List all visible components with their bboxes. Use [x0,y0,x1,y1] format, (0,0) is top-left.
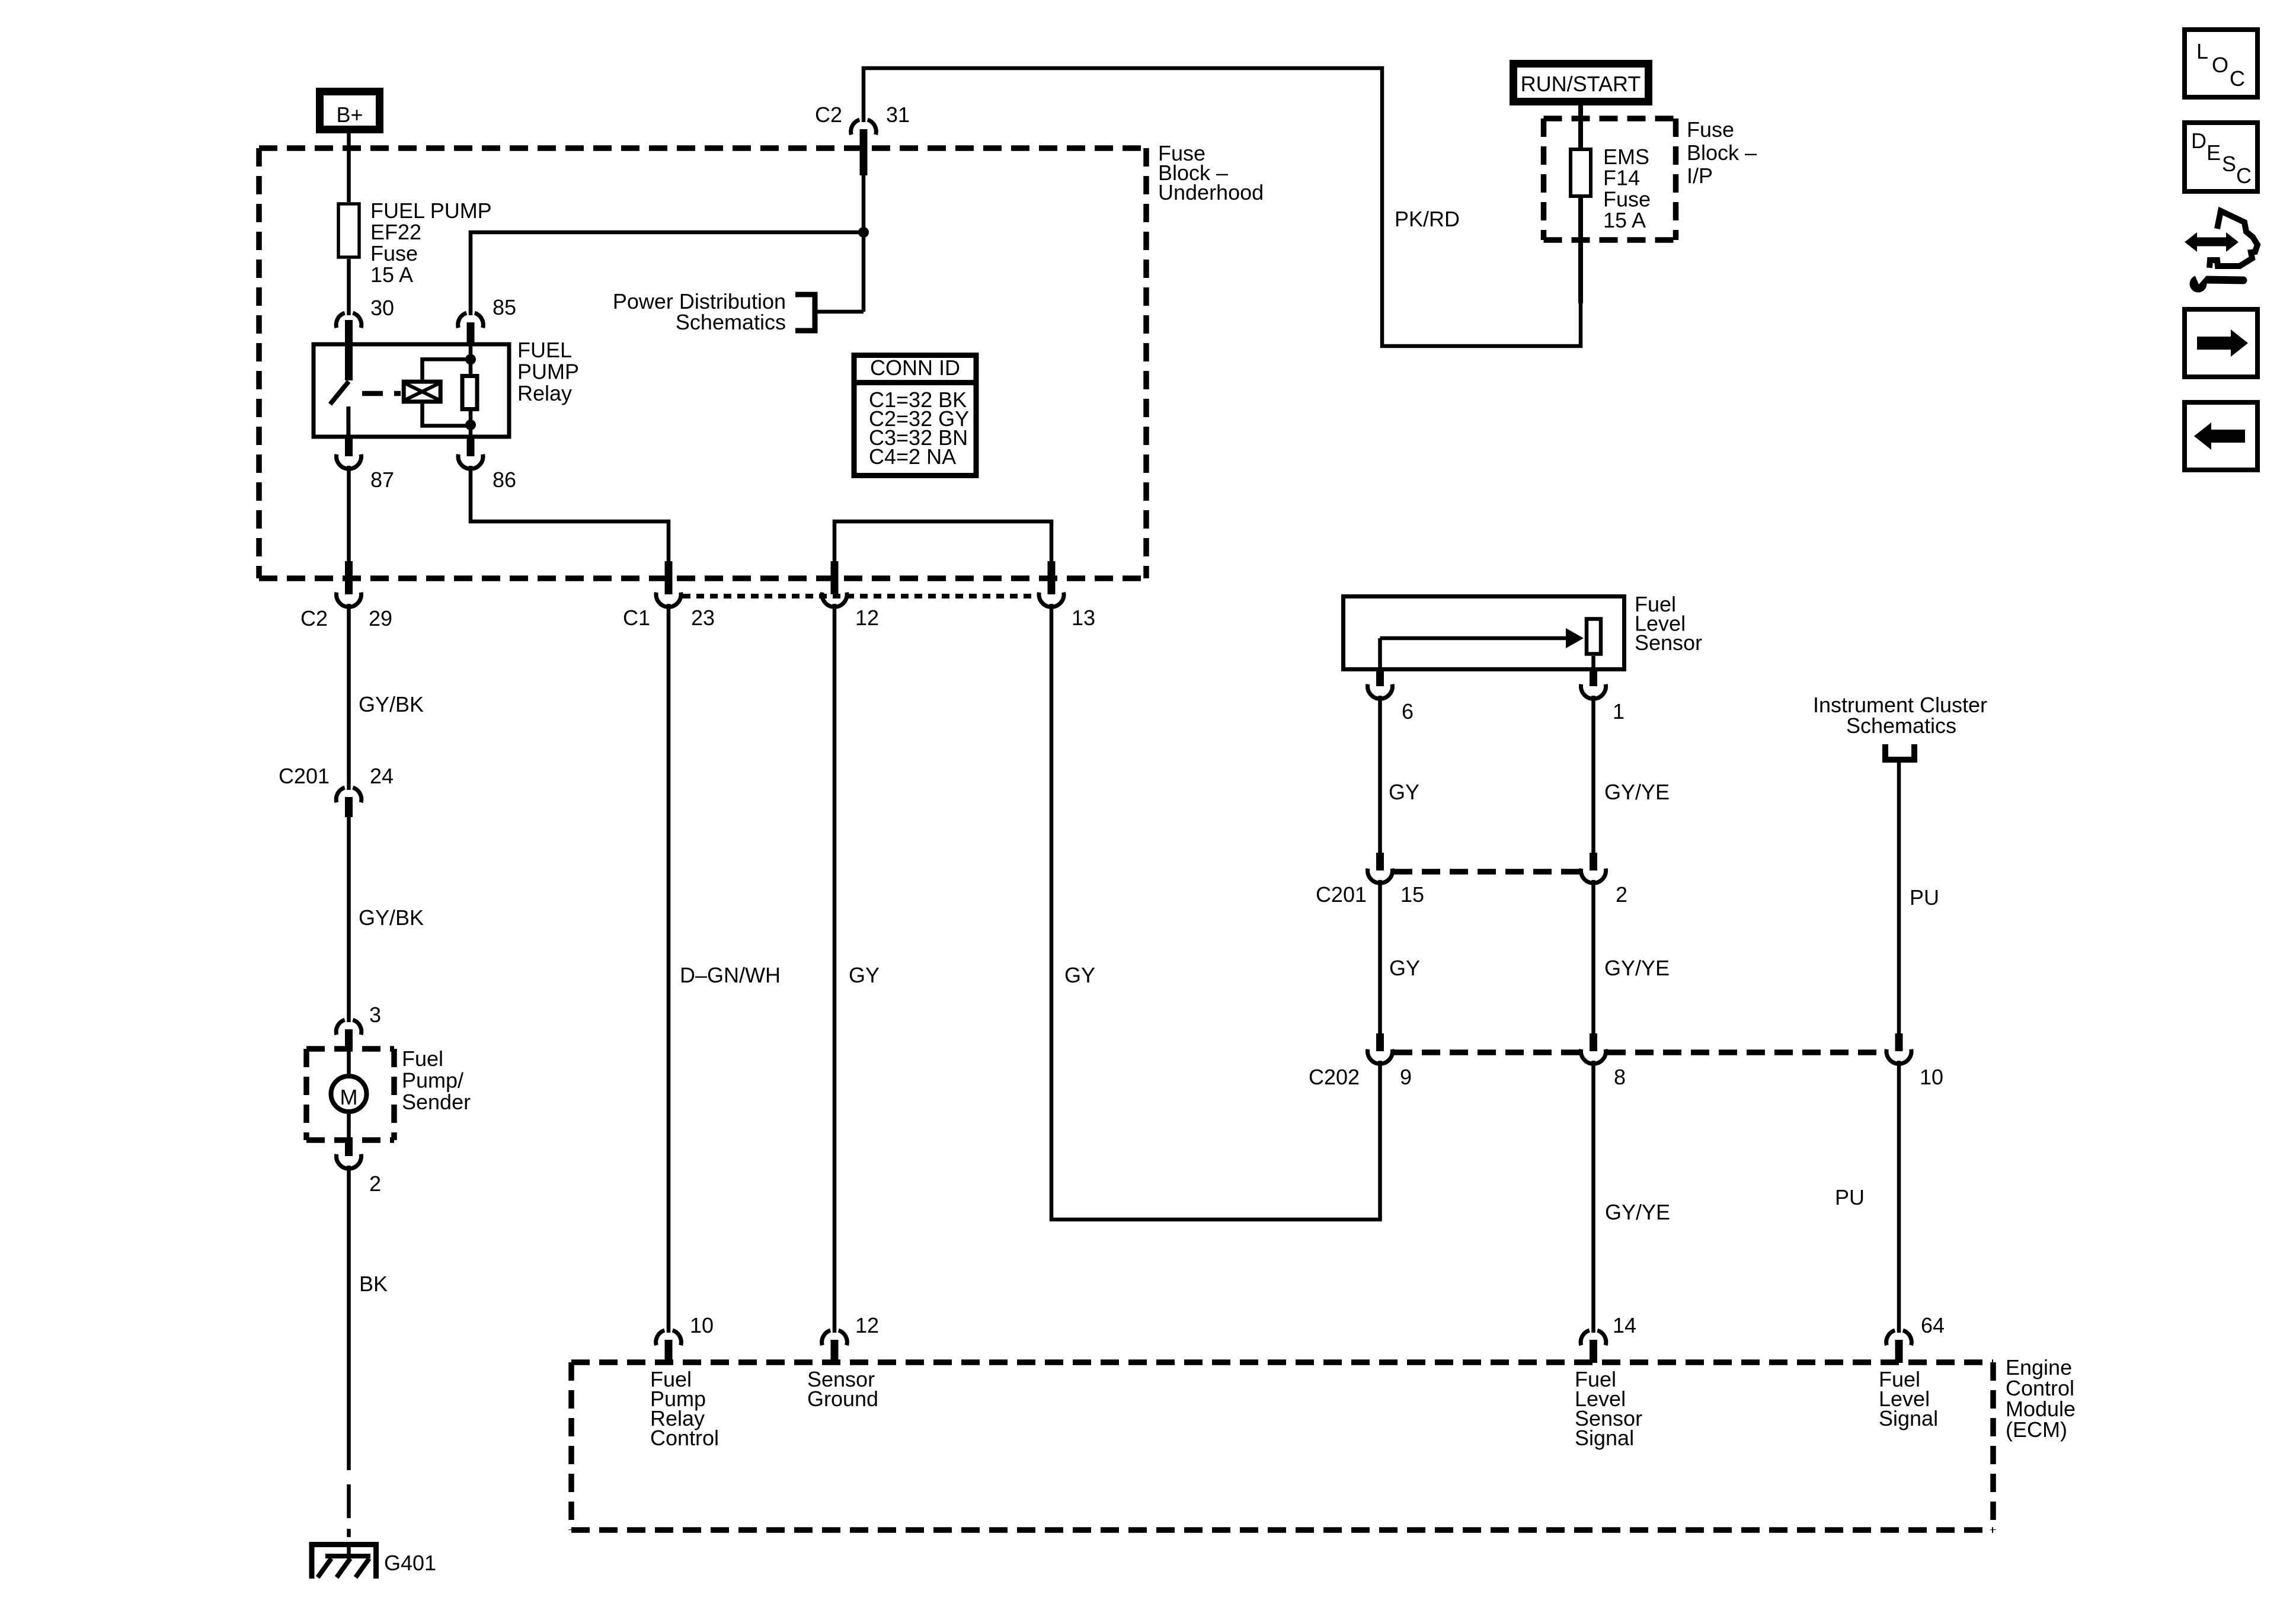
connector ECM pin 64 [1886,1330,1912,1363]
label GY x5 [1064,963,1095,987]
svg-text:B+: B+ [336,103,363,127]
relay coil [404,382,440,402]
svg-text:S: S [2222,152,2236,176]
label PU lower [1835,1185,1865,1209]
label GY/YE x7 lower [1605,1200,1670,1224]
sensor potentiometer [1587,619,1601,672]
fuel level sensor box [1344,597,1625,670]
icon arrow left box [2185,402,2257,470]
svg-text:D: D [2191,129,2207,153]
svg-text:12: 12 [855,606,879,630]
label fuel pump relay [517,338,579,405]
svg-text:10: 10 [1920,1065,1943,1089]
svg-text:Control: Control [650,1426,719,1450]
svg-text:Block –: Block – [1687,140,1757,165]
relay switch-coil dashed link [362,391,401,396]
label fuel level signal [1879,1367,1938,1430]
connector pin 3 [336,1020,362,1049]
relay switch [330,320,353,437]
junction dot relay bottom [465,420,476,430]
icon vehicle with wrench [2185,211,2257,293]
svg-text:Underhood: Underhood [1158,180,1264,204]
svg-text:24: 24 [370,764,394,788]
svg-text:85: 85 [493,295,516,319]
svg-text:C202: C202 [1309,1065,1360,1089]
svg-text:12: 12 [855,1313,879,1337]
label fuel pump/sender [402,1046,471,1114]
svg-text:C: C [2230,66,2245,91]
svg-text:8: 8 [1614,1065,1626,1089]
label fuse EF22 [370,199,492,287]
relay coil loop wires [423,359,471,425]
wire pin 86 to C1-23 [471,466,669,561]
wire GY pin6 to C201-15 [1378,696,1382,853]
svg-text:2: 2 [1616,882,1627,907]
pin label 85 [493,295,516,319]
wire GY/YE C201-2 to C202-8 [1591,880,1595,1033]
label fuel level sensor [1635,592,1702,655]
connector C202 pin 8 [1581,1033,1606,1064]
svg-text:GY/YE: GY/YE [1605,1200,1670,1224]
motor M fuel pump [331,1076,367,1112]
fuse block underhood dashed box [259,148,1146,578]
svg-text:Ground: Ground [807,1387,878,1411]
svg-text:15: 15 [1400,882,1424,907]
svg-text:GY: GY [1064,963,1095,987]
pin label 64 [1921,1313,1945,1337]
svg-text:PK/RD: PK/RD [1395,207,1460,231]
svg-text:Fuse: Fuse [370,241,418,265]
svg-text:23: 23 [691,606,715,630]
pin label 14 [1613,1313,1636,1337]
label EMS F14 fuse [1603,145,1651,232]
svg-text:30: 30 [370,296,394,320]
svg-text:G401: G401 [384,1551,436,1575]
label GY/BK upper [359,692,424,716]
CONN ID table [854,356,976,476]
svg-text:1: 1 [1613,699,1625,724]
label power distribution schematics [613,289,786,334]
svg-text:O: O [2212,53,2228,77]
wire B+ to fuse EF22 [347,133,351,202]
svg-text:15 A: 15 A [1603,208,1646,232]
connector line C202 dashed [1394,1049,1885,1055]
svg-text:GY: GY [849,963,880,987]
svg-text:C201: C201 [279,764,330,788]
icon arrow right box [2185,309,2257,377]
svg-text:PU: PU [1835,1185,1865,1209]
power distribution bracket [795,295,864,331]
label GY x4 [849,963,880,987]
svg-text:RUN/START: RUN/START [1521,72,1641,96]
label sensor ground [807,1367,878,1411]
connector sensor pin 6 [1368,671,1393,699]
svg-text:2: 2 [369,1172,381,1196]
label G401 [384,1551,436,1575]
svg-text:3: 3 [369,1003,381,1027]
junction dot C2-31/85 [858,227,869,238]
label fuse block underhood [1158,141,1264,204]
sensor wiper arrow [1380,628,1584,671]
connector C1 pin 12 [822,561,847,607]
pin label 2 [369,1172,381,1196]
svg-text:I/P: I/P [1687,164,1713,188]
svg-text:9: 9 [1400,1065,1412,1089]
wire into motor [347,1049,351,1074]
svg-text:10: 10 [690,1313,714,1337]
svg-text:Sender: Sender [402,1090,471,1114]
svg-text:14: 14 [1613,1313,1636,1337]
label GY/YE x7 mid [1604,956,1670,980]
wire 85 horizontal [471,232,864,315]
svg-text:PUMP: PUMP [517,360,579,384]
connector C2 pin 31 [851,120,877,175]
pin label 3 [369,1003,381,1027]
svg-text:C1: C1 [623,606,650,630]
label PK/RD [1395,207,1460,231]
wire GY C201-15 to C202-9 [1378,880,1382,1033]
svg-text:C2: C2 [815,103,842,127]
label engine control module [2006,1355,2076,1442]
connector pin 87 [337,437,362,469]
svg-text:13: 13 [1072,606,1095,630]
connector face dotted line C1 [683,594,1037,598]
svg-text:GY/YE: GY/YE [1604,780,1670,804]
wire GY pin 13 to C202-9 [1051,604,1380,1219]
label GY x6 lower [1389,956,1420,980]
ECM dashed box [571,1362,1993,1530]
connector C2 pin 29 [337,561,362,607]
B+ power feed box [320,92,380,130]
connector pin 85 [458,313,484,344]
connector line C201 dashed [1394,869,1579,875]
label GY/BK lower [359,905,424,930]
wire bridge pins 12-13 [834,521,1051,561]
wire PU upper [1897,763,1901,1033]
pin label 86 [493,468,516,492]
connector ECM pin 10 [656,1330,682,1363]
labels C2 29 [300,606,392,630]
connector pin 86 [458,437,483,469]
connector pin 30 [336,313,362,344]
svg-text:C2: C2 [300,606,328,630]
fuel pump/sender dashed box [306,1049,394,1140]
relay K: fuel pump relay box [314,344,509,437]
svg-text:C201: C201 [1316,882,1367,907]
label D-GN/WH [680,963,781,987]
wire GY/YE C202-8 to ECM 14 [1591,1061,1595,1333]
wire top run C2-31 to EMS fuse [864,68,1581,346]
svg-text:87: 87 [370,468,394,492]
labels C2 31 [815,103,910,127]
svg-text:86: 86 [493,468,516,492]
wire RUN/START to EMS fuse [1578,105,1583,149]
connector C201 pin 2 [1581,853,1606,883]
relay resistor [462,376,477,409]
connector C201 pin 24 [336,788,362,817]
connector sensor pin 1 [1581,671,1606,699]
svg-text:L: L [2196,39,2208,63]
connector ECM pin 14 [1581,1330,1606,1363]
svg-text:Fuel: Fuel [402,1046,443,1071]
labels C201 15 [1316,882,1424,907]
svg-text:FUEL PUMP: FUEL PUMP [370,199,492,223]
svg-text:(ECM): (ECM) [2006,1417,2067,1442]
pin label 12 (ECM) [855,1313,879,1337]
label fuel pump relay control [650,1367,719,1450]
svg-text:64: 64 [1921,1313,1945,1337]
svg-text:Sensor: Sensor [1635,630,1702,655]
pin label 1 [1613,699,1625,724]
junction dot relay top [465,354,476,364]
connector C1 pin 13 [1039,561,1064,607]
labels C1 23 [623,606,715,630]
svg-text:M: M [340,1085,358,1109]
labels C202 9 [1309,1065,1412,1089]
ground G401 [312,1542,376,1579]
fuse EF22 [338,204,359,257]
svg-text:GY/BK: GY/BK [359,905,424,930]
svg-text:BK: BK [359,1272,388,1296]
connector pin 2 [337,1140,362,1169]
svg-text:Pump/: Pump/ [402,1068,463,1093]
pin label 30 [370,296,394,320]
pin label 10 (ECM) [690,1313,714,1337]
connector C201 pin 15 [1368,853,1393,883]
wire GY sensor ground [833,604,837,1333]
svg-text:EF22: EF22 [370,220,421,244]
pin label 12 [855,606,879,630]
svg-text:GY: GY [1389,956,1420,980]
wire GY/BK upper [347,604,351,790]
svg-text:D–GN/WH: D–GN/WH [680,963,781,987]
connector ECM pin 12 [822,1330,848,1363]
pin label 87 [370,468,394,492]
wire PU C202-10 to ECM 64 [1897,1061,1901,1333]
pin label 8 [1614,1065,1626,1089]
icon DESC box [2185,123,2257,191]
label BK [359,1272,388,1296]
wire GY/YE pin1 to C201-2 [1591,696,1595,853]
svg-text:Relay: Relay [517,381,572,405]
svg-text:Signal: Signal [1575,1426,1634,1450]
fuse block I/P dashed box [1544,119,1676,240]
svg-text:FUEL: FUEL [517,338,572,362]
label GY/YE x7 upper [1604,780,1670,804]
fuse EMS F14 [1571,149,1591,196]
connector C202 pin 10 [1886,1033,1911,1064]
RUN/START power feed box [1514,64,1649,102]
svg-text:Signal: Signal [1879,1406,1938,1430]
svg-text:Schematics: Schematics [676,310,786,334]
svg-text:GY/YE: GY/YE [1604,956,1670,980]
svg-text:Schematics: Schematics [1846,713,1956,738]
wire motor to pin 2 [347,1114,351,1140]
wire fuse to pin 30 [347,259,351,315]
pin label 13 [1072,606,1095,630]
connector C1 pin 23 [656,561,681,607]
pin label 10 (C202) [1920,1065,1943,1089]
svg-text:GY: GY [1389,780,1419,804]
wire pin 87 to C2-29 [347,466,351,561]
pin label 6 [1402,699,1414,724]
svg-text:GY/BK: GY/BK [359,692,424,716]
svg-text:PU: PU [1910,885,1939,910]
instrument cluster bracket [1885,744,1914,760]
labels C201 24 [279,764,394,788]
dashed wire to G401 [347,1484,351,1537]
wire GY/BK lower [347,817,351,1022]
relay resistor branch wire [469,344,473,437]
wire C2-31 into fuse block [862,175,866,312]
connector C202 pin 9 [1368,1033,1393,1064]
svg-text:CONN ID: CONN ID [870,356,960,380]
svg-text:15 A: 15 A [370,263,413,287]
label PU upper [1910,885,1939,910]
svg-text:Fuse: Fuse [1687,117,1734,142]
label fuel level sensor signal [1575,1367,1642,1450]
icon LOC box [2185,30,2257,97]
pin label 2 (C201) [1616,882,1627,907]
label instrument cluster schematics [1813,693,1987,738]
label fuse block I/P [1687,117,1757,188]
svg-text:E: E [2207,140,2221,165]
label GY x6 upper [1389,780,1419,804]
wire D-GN/WH [667,604,671,1333]
wire BK [347,1166,351,1470]
wire EMS fuse down [1578,196,1583,303]
svg-text:29: 29 [369,606,392,630]
svg-text:6: 6 [1402,699,1414,724]
svg-text:C4=2 NA: C4=2 NA [869,444,956,469]
svg-text:C: C [2236,164,2252,188]
svg-text:31: 31 [886,103,910,127]
